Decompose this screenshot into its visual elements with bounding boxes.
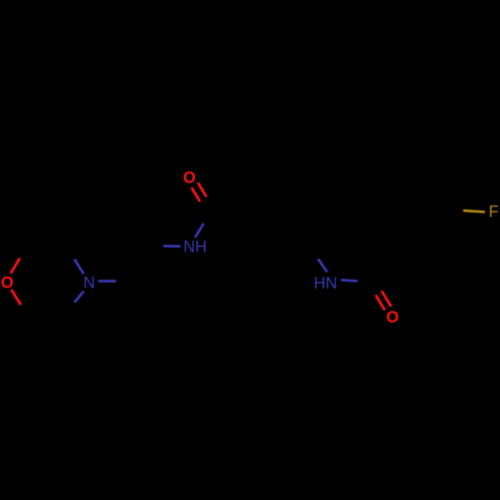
- svg-text:HN: HN: [314, 274, 337, 292]
- svg-text:NH: NH: [183, 238, 206, 256]
- svg-text:F: F: [489, 203, 499, 221]
- svg-text:N: N: [83, 274, 95, 292]
- svg-text:O: O: [1, 274, 14, 292]
- svg-text:O: O: [183, 169, 196, 187]
- svg-text:O: O: [386, 309, 399, 327]
